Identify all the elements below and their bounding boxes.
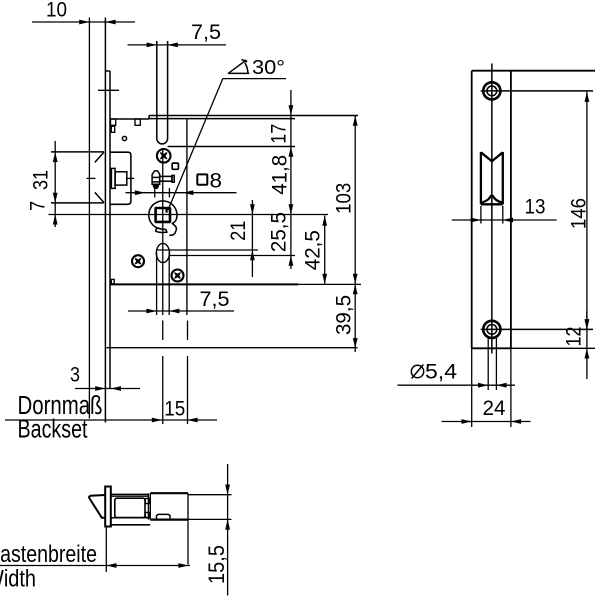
bottom view small blocks: [145, 499, 150, 504]
dimension Kastenbreite width: [0, 565, 190, 567]
screw S1: [157, 149, 171, 163]
extension line 15 right: [187, 321, 189, 341]
latch tail block: [110, 152, 131, 204]
extension line y=255.5: [170, 255, 296, 257]
lock case bottom edge: [110, 283, 298, 285]
dimension 3: [75, 388, 140, 390]
svg-text:146: 146: [568, 198, 591, 229]
dimension 21: [251, 200, 253, 277]
follower square hole 8mm: [156, 208, 170, 222]
angle symbol: [228, 72, 250, 74]
vertical centerline through follower: [162, 148, 164, 315]
follower horizontal centerline: [49, 214, 329, 216]
svg-text:Kastenbreite: Kastenbreite: [0, 541, 97, 568]
svg-text:13: 13: [525, 196, 546, 219]
svg-text:41,8: 41,8: [269, 155, 292, 195]
latch bolt head (side view): [51, 151, 104, 153]
bottom view case body left section: [111, 493, 149, 495]
svg-text:31: 31: [30, 170, 53, 190]
svg-text:10: 10: [46, 0, 67, 22]
screw S2: [132, 255, 144, 267]
screw hole top: [483, 82, 500, 99]
bottom view clip tab: [157, 514, 171, 519]
svg-text:7,5: 7,5: [200, 288, 230, 311]
svg-text:15: 15: [164, 398, 185, 421]
bottom view case body right section: [150, 492, 188, 494]
svg-text:Backset: Backset: [18, 414, 89, 444]
small square opening: [172, 163, 178, 169]
svg-text:17: 17: [268, 124, 291, 144]
lock case outline top: [110, 118, 149, 120]
cylinder hole: [156, 243, 169, 262]
svg-text:42,5: 42,5: [302, 230, 325, 270]
label square 8: [197, 174, 207, 184]
faceplate centerline: [491, 64, 493, 354]
plate bottom extension: [511, 347, 595, 349]
small pin hole: [122, 136, 126, 140]
latch guide parts: [111, 168, 115, 188]
dimension 31: [54, 141, 56, 227]
dimension 103: [354, 116, 356, 285]
svg-text:12: 12: [563, 327, 586, 347]
svg-text:8: 8: [210, 170, 223, 193]
svg-text:Width: Width: [0, 566, 36, 593]
screw bottom center line extended: [481, 328, 593, 330]
svg-text:103: 103: [333, 183, 356, 214]
faceplate front outline: [471, 71, 473, 349]
dimension chain 17 / 41,8 / 25,5 at x=291: [290, 90, 292, 269]
latch cutout: [480, 152, 482, 204]
case lower extension line: [107, 347, 358, 349]
faceplate (side view): [104, 18, 106, 423]
svg-text:24: 24: [483, 397, 506, 420]
leader 30 degrees: [223, 78, 286, 80]
svg-text:15,5: 15,5: [204, 545, 229, 584]
dimension 7,5 lower: [128, 310, 234, 312]
latch front extension line: [88, 18, 90, 419]
bottom view divider: [147, 493, 149, 519]
dimension 39,5: [354, 284, 356, 352]
dimension 146: [586, 92, 588, 330]
svg-text:30°: 30°: [252, 56, 285, 79]
svg-text:7: 7: [27, 201, 50, 211]
dimension 15,5: [188, 494, 232, 496]
bottom view faceplate bar: [105, 487, 111, 527]
extension line y=250: [157, 249, 259, 251]
square 8 dimension line: [126, 192, 237, 194]
spring bolt / rivet: [152, 171, 160, 184]
bottom view extension lines: [187, 520, 189, 565]
dimension 24: [471, 348, 473, 427]
dimension 7,5 top: [128, 44, 227, 46]
dimension 13: [480, 206, 482, 224]
bottom view latch (top view): [115, 498, 145, 517]
dimension 15: [152, 418, 162, 423]
backset label line: [5, 419, 217, 421]
screw hole bottom: [483, 321, 500, 338]
svg-text:21: 21: [227, 221, 250, 241]
dimension 10: [32, 21, 135, 23]
dimension 12: [586, 311, 588, 379]
svg-text:25,5: 25,5: [268, 212, 291, 252]
svg-text:7,5: 7,5: [191, 21, 221, 44]
svg-text:3: 3: [70, 364, 80, 387]
follower nut cam notch: [169, 221, 176, 235]
svg-text:5,4: 5,4: [425, 361, 457, 384]
dimension 42,5: [324, 216, 326, 285]
follower nut bottom tab: [156, 228, 167, 233]
dimension diameter 5,4: [487, 338, 489, 390]
svg-text:39,5: 39,5: [333, 295, 356, 335]
screw top center line extended: [481, 90, 593, 92]
top slot: [156, 41, 158, 139]
follower nut circle: [149, 201, 177, 229]
case inner edge line: [186, 119, 188, 315]
bottom view latch wedge: [89, 495, 105, 518]
screw S3: [172, 270, 184, 282]
diameter symbol: [411, 365, 423, 377]
dimension 7: [53, 214, 58, 224]
